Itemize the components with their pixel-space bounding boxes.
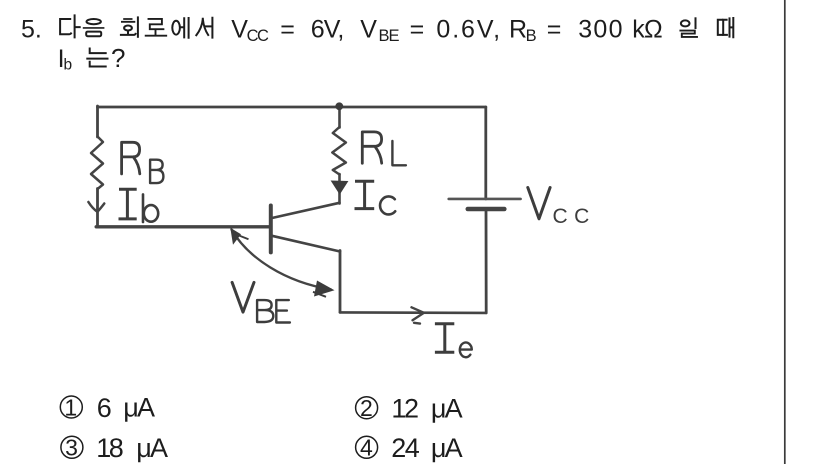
svg-text:μA: μA: [431, 433, 463, 463]
label VBE: subscript B: [257, 300, 273, 322]
label Vcc: letter V: [528, 188, 550, 219]
label I of Ie (serif I): [435, 324, 454, 353]
svg-text:2: 2: [360, 395, 373, 421]
wire: Vcc riser: [484, 107, 487, 199]
battery Vcc short plate: [468, 207, 505, 212]
hangul 로: [149, 19, 164, 29]
svg-text:R: R: [509, 15, 527, 43]
label Ib: subscript b: [142, 194, 145, 222]
hangul 회: [122, 19, 134, 22]
choice circle 4: [356, 436, 378, 458]
svg-text:kΩ: kΩ: [632, 15, 662, 43]
VBE measuring arc: [232, 230, 332, 290]
Question line 1: latin text: [21, 15, 662, 45]
svg-text:1: 1: [64, 394, 77, 420]
svg-text:?: ?: [111, 43, 125, 73]
choice circle 2: [356, 397, 378, 419]
svg-text:=: =: [410, 15, 425, 43]
wire: RL to collector node: [338, 174, 341, 204]
label I of Ic (serif I): [355, 181, 375, 208]
label RB: letter R: [122, 142, 140, 174]
choice circle 1: [60, 396, 82, 418]
label RB: subscript B: [150, 160, 163, 183]
svg-text:C: C: [553, 205, 568, 228]
svg-text:3: 3: [65, 435, 78, 461]
svg-text:μA: μA: [123, 393, 155, 423]
label Ie: subscript e: [460, 342, 472, 357]
wire: battery to bottom rail: [485, 209, 488, 313]
transistor base bar: [269, 206, 273, 253]
wire: RL branch drop: [338, 107, 341, 128]
svg-text:=: =: [280, 15, 295, 43]
svg-text:μA: μA: [431, 394, 463, 424]
VBE arrowhead upper: [230, 228, 241, 245]
arrow Ib (down, open barbs): [88, 202, 104, 212]
hangul 서: [196, 19, 208, 35]
label RL: letter R: [362, 132, 381, 163]
svg-text:4: 4: [360, 435, 373, 461]
battery Vcc long plate: [449, 198, 521, 201]
wire: base horizontal: [96, 225, 271, 228]
hangul 때: [718, 20, 723, 35]
label Ic: subscript c: [380, 196, 395, 214]
svg-text:C: C: [574, 205, 589, 228]
arrow Ie (right, open barbs): [412, 307, 425, 323]
wire: left drop above RB: [96, 106, 99, 137]
wire: emitter drop: [339, 251, 342, 313]
page border rule (right edge): [784, 0, 786, 464]
resistor RL zigzag: [332, 127, 346, 175]
hangul 음: [87, 19, 101, 24]
svg-text:24: 24: [391, 433, 420, 463]
hangul 에: [172, 21, 180, 35]
svg-text:18: 18: [96, 433, 123, 463]
label I of Ib (serif I): [119, 189, 137, 219]
hangul 는: [90, 49, 106, 54]
svg-text:V: V: [360, 15, 377, 43]
svg-text:b: b: [64, 56, 73, 73]
svg-text:6V,: 6V,: [311, 15, 344, 43]
svg-text:BE: BE: [379, 27, 400, 45]
svg-text:300: 300: [578, 15, 624, 43]
svg-text:5.: 5.: [21, 15, 42, 43]
label VBE: subscript E: [276, 300, 290, 322]
svg-text:6: 6: [97, 393, 112, 423]
svg-text:CC: CC: [247, 27, 269, 45]
label VBE: letter V: [232, 282, 254, 312]
transistor emitter lead: [272, 236, 340, 252]
svg-text:12: 12: [391, 394, 418, 424]
wire: top rail: [98, 106, 486, 109]
transistor collector lead: [272, 203, 340, 218]
wire: RB to corner: [96, 189, 99, 227]
svg-text:=: =: [547, 15, 562, 43]
resistor RB zigzag: [91, 137, 103, 190]
svg-text:0.6V,: 0.6V,: [436, 15, 502, 43]
choice circle 3: [61, 436, 83, 458]
VBE arrowhead lower: [314, 281, 335, 297]
label RL: subscript L: [392, 141, 406, 165]
hangul 다: [60, 19, 71, 34]
hangul 일: [681, 20, 690, 26]
wire: bottom rail: [340, 311, 486, 314]
svg-text:μA: μA: [136, 433, 168, 463]
svg-text:B: B: [526, 27, 537, 45]
arrow Ic (filled, down): [331, 181, 349, 195]
junction node at RL top: [335, 102, 343, 110]
